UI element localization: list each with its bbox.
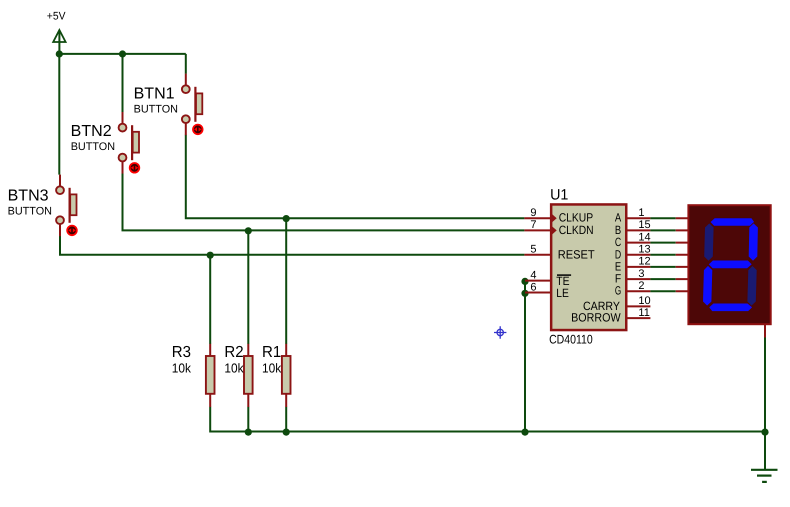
- svg-text:CLKDN: CLKDN: [559, 223, 594, 237]
- svg-text:4: 4: [530, 270, 536, 282]
- display bottom pin stub: [764, 324, 766, 337]
- wire: R3 vertical: [210, 255, 765, 432]
- svg-text:2: 2: [638, 280, 644, 292]
- junction TE/LE wire bottom: [521, 429, 528, 436]
- svg-text:3: 3: [638, 268, 644, 280]
- chip U1 clock chevron CLKDN: [552, 227, 556, 234]
- origin marker crosshair: [494, 326, 506, 338]
- svg-text:BTN3: BTN3: [8, 188, 49, 205]
- display segment E lit: [703, 265, 713, 306]
- wire: rail to BTN1: [185, 54, 187, 74]
- junction TE: [521, 278, 528, 285]
- svg-text:6: 6: [530, 281, 536, 293]
- svg-text:BUTTON: BUTTON: [134, 104, 178, 116]
- svg-text:+5V: +5V: [47, 11, 66, 23]
- wire: rail to BTN3: [58, 54, 60, 175]
- chip U1 pin stubs right A-G: [627, 218, 651, 291]
- wire: display to ground: [764, 338, 766, 470]
- svg-text:10k: 10k: [172, 360, 192, 375]
- ground symbol: [751, 470, 778, 482]
- button BTN3: [56, 175, 77, 237]
- svg-text:R1: R1: [262, 344, 281, 361]
- svg-text:14: 14: [638, 231, 650, 243]
- chip U1 clock chevron CLKUP: [552, 215, 556, 222]
- display body: [688, 205, 770, 324]
- wire: rail to BTN2: [122, 54, 124, 112]
- svg-text:R2: R2: [224, 344, 243, 361]
- wires chip to display A-G: [650, 218, 675, 291]
- svg-text:13: 13: [638, 244, 650, 256]
- button BTN2: [119, 112, 140, 174]
- svg-text:15: 15: [638, 219, 650, 231]
- display segment F unlit: [704, 223, 714, 261]
- chip U1 pin stub BORROW: [627, 317, 651, 319]
- svg-text:RESET: RESET: [558, 247, 596, 261]
- chip U1 body: [551, 204, 626, 330]
- resistor R2: [244, 344, 253, 407]
- svg-text:7: 7: [530, 219, 536, 231]
- display segment G lit: [708, 260, 752, 269]
- svg-text:BTN1: BTN1: [134, 85, 175, 102]
- junction rail at BTN2: [119, 50, 126, 57]
- svg-text:U1: U1: [550, 187, 568, 204]
- wire: TE LE to ground rail: [524, 281, 526, 432]
- svg-text:G: G: [615, 284, 621, 298]
- svg-text:BTN2: BTN2: [71, 123, 112, 140]
- resistor R3: [206, 344, 215, 407]
- display segment C unlit: [747, 265, 757, 306]
- chip U1 pin stubs left: pins 9,7,5,4,6: [524, 218, 550, 292]
- wire: BTN2 to CLKDN row: [123, 173, 525, 230]
- display segment B lit: [748, 223, 758, 261]
- svg-text:1: 1: [638, 207, 644, 219]
- junction R3 top on RESET row: [207, 252, 214, 259]
- wire: R1 vertical: [285, 218, 287, 431]
- wire: +5V rail horizontal: [59, 53, 186, 55]
- svg-text:LE: LE: [556, 286, 569, 300]
- display segment D lit: [709, 303, 753, 311]
- display segment A lit: [710, 218, 755, 226]
- svg-text:12: 12: [638, 256, 650, 268]
- svg-text:10k: 10k: [262, 360, 282, 375]
- svg-text:BORROW: BORROW: [571, 311, 621, 325]
- resistor R1: [282, 344, 291, 407]
- svg-text:CD40110: CD40110: [549, 333, 593, 347]
- junction rail at +5V: [56, 50, 63, 57]
- svg-text:BUTTON: BUTTON: [71, 141, 115, 153]
- junction LE: [521, 290, 528, 297]
- svg-text:BUTTON: BUTTON: [8, 206, 52, 218]
- wire: BTN3 to RESET row: [60, 236, 524, 255]
- junction R1 top on CLKUP row: [283, 215, 290, 222]
- power symbol +5V: [53, 30, 65, 54]
- wire: BTN1 to CLKUP row: [186, 135, 525, 218]
- display pin stubs left: [676, 218, 689, 291]
- chip U1 pin stub CARRY: [627, 305, 651, 307]
- svg-text:11: 11: [638, 307, 649, 319]
- button BTN1: [182, 74, 203, 136]
- svg-text:10: 10: [638, 295, 650, 307]
- svg-text:5: 5: [530, 244, 536, 256]
- svg-text:9: 9: [530, 207, 536, 219]
- junction R1 bottom: [283, 429, 290, 436]
- wire: R2 vertical: [247, 230, 249, 431]
- junction R2 bottom: [245, 429, 252, 436]
- svg-text:R3: R3: [172, 344, 191, 361]
- junction R2 top on CLKDN row: [245, 227, 252, 234]
- svg-text:10k: 10k: [224, 360, 244, 375]
- junction display ground: [761, 429, 768, 436]
